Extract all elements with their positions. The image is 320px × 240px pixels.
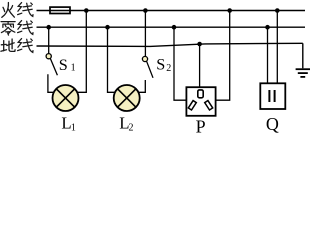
node: neutral-Q junction — [265, 25, 270, 30]
label 线 (of 火线) — [18, 3, 33, 17]
socket P earth slot — [198, 90, 203, 98]
socket P body — [186, 87, 215, 116]
svg-text:2: 2 — [129, 123, 134, 134]
label 线 (of 零线) — [18, 21, 33, 35]
switch S2 pivot — [142, 56, 147, 61]
label 零线 (neutral wire) — [1, 22, 15, 35]
socket Q body — [260, 83, 285, 109]
wire: live to S2 — [144, 11, 146, 57]
svg-text:S: S — [59, 56, 68, 74]
wire: live bus (火线) — [37, 10, 306, 12]
label 地线 (earth wire) — [1, 39, 15, 51]
lamp L2 — [114, 85, 140, 111]
fuse on live wire — [50, 7, 70, 13]
socket Q left pin slot — [268, 90, 270, 102]
switch S1 pivot — [46, 54, 51, 59]
switch S1 blade — [50, 58, 57, 75]
lamp L1 — [53, 85, 79, 111]
wire: neutral to socket P (left) — [174, 27, 187, 100]
wire: S2 to lamp L2 — [138, 80, 145, 92]
node: live-L1 junction — [84, 8, 89, 13]
node: earth-P junction — [197, 42, 202, 47]
wire: earth drop to ground symbol — [302, 43, 304, 68]
svg-text:S: S — [156, 55, 165, 73]
wire: S1 to lamp L1 — [48, 74, 55, 92]
wire: neutral to lamp L2 — [108, 27, 116, 92]
wire: live to socket P (right) — [216, 11, 230, 101]
svg-text:2: 2 — [166, 63, 171, 74]
node: neutral-S1 junction — [46, 25, 51, 30]
wire: neutral to socket Q — [267, 27, 269, 83]
svg-text:Q: Q — [266, 114, 279, 134]
wire: earth to socket P (center pin) — [199, 44, 201, 88]
node: live-P junction — [227, 8, 232, 13]
svg-text:1: 1 — [71, 123, 76, 134]
ground symbol — [296, 69, 310, 77]
node: neutral-L2 junction — [105, 25, 110, 30]
socket Q right pin slot — [274, 90, 276, 102]
wire: earth bus (地线) — [37, 43, 303, 46]
node: neutral-P junction — [172, 25, 177, 30]
node: live-S2 junction — [143, 8, 148, 13]
label 线 (of 地线) — [18, 39, 33, 53]
socket P left slot — [188, 101, 196, 110]
wire: live to socket Q — [276, 11, 278, 84]
wire: lamp L1 to live — [77, 11, 86, 93]
switch S2 blade — [147, 61, 153, 78]
svg-text:P: P — [196, 117, 206, 135]
node: live-Q junction — [275, 8, 280, 13]
wire: neutral bus (零线) — [37, 26, 306, 28]
socket P right slot — [205, 101, 213, 110]
wire: neutral to S1 — [48, 27, 50, 54]
label 火线 (live wire) — [2, 3, 15, 18]
svg-text:1: 1 — [71, 63, 76, 74]
